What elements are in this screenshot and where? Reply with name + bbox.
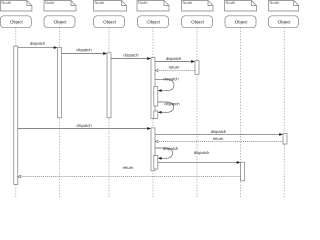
activation bar B4b (lifeline 4, second activation) bbox=[151, 128, 155, 171]
object box 7 bbox=[269, 16, 299, 28]
activation sub-bar B4a-A bbox=[154, 87, 158, 107]
lifeline 1 bbox=[15, 28, 17, 197]
activation bar B6 (lifeline 6) bbox=[241, 162, 245, 181]
note Node 1 bbox=[0, 1, 32, 12]
object box 4 bbox=[138, 16, 169, 28]
activation bar B4a (lifeline 4, first activation) bbox=[151, 58, 155, 119]
message M11 self dispatch 3 (obj4) bbox=[155, 147, 178, 160]
activation sub-bar B4b-C bbox=[154, 156, 158, 170]
activation bar B1 (lifeline 1) bbox=[14, 46, 18, 185]
activation sub-bar B4a-B bbox=[154, 111, 158, 118]
lifeline 6 bbox=[240, 28, 242, 197]
message M3 dispatch (obj3 to obj4) bbox=[111, 54, 151, 60]
message M12 dispatch (obj4 to obj6) bbox=[158, 151, 241, 164]
message M5 return (obj5 to obj4, dashed) bbox=[155, 66, 195, 72]
object box 2 bbox=[44, 16, 75, 28]
activation bar B7 (lifeline 7) bbox=[283, 134, 287, 145]
message M13 return (obj6 to obj1, dashed) bbox=[18, 166, 241, 178]
activation bar B5 (lifeline 5) bbox=[195, 61, 199, 75]
message M9 dispatch (obj4 to obj7, long) bbox=[155, 130, 283, 136]
object box 3 bbox=[94, 16, 125, 28]
activation bar B3 (lifeline 3) bbox=[107, 53, 111, 118]
lifeline 2 bbox=[59, 28, 61, 197]
message M4 dispatch (obj4 to obj5) bbox=[155, 57, 195, 63]
lifeline 5 bbox=[196, 28, 198, 197]
note Node 6 bbox=[225, 1, 257, 12]
note Node 4 bbox=[137, 1, 169, 12]
object box 1 bbox=[0, 16, 31, 28]
note Node 3 bbox=[94, 1, 127, 12]
note Node 5 bbox=[182, 1, 214, 12]
object box 5 bbox=[182, 16, 213, 28]
activation bar B2 (lifeline 2) bbox=[58, 47, 62, 118]
message M6 self dispatch 1 (obj4) bbox=[155, 77, 178, 92]
lifeline 3 bbox=[108, 28, 110, 197]
message M8 dispatch (obj1 to obj4, long) bbox=[18, 124, 151, 130]
lifeline 4 bbox=[152, 28, 154, 197]
note Node 7 bbox=[269, 1, 299, 12]
note Node 2 bbox=[44, 1, 76, 12]
lifeline 7 bbox=[283, 28, 285, 197]
message M10 return (obj7 to obj4, dashed) bbox=[155, 137, 283, 143]
message M7 self dispatch 2 (obj4) bbox=[158, 102, 180, 114]
message M2 dispatch (obj2 to obj3) bbox=[62, 48, 108, 55]
object box 6 bbox=[225, 16, 256, 28]
message M1 dispatch (obj1 to obj2) bbox=[18, 42, 58, 49]
